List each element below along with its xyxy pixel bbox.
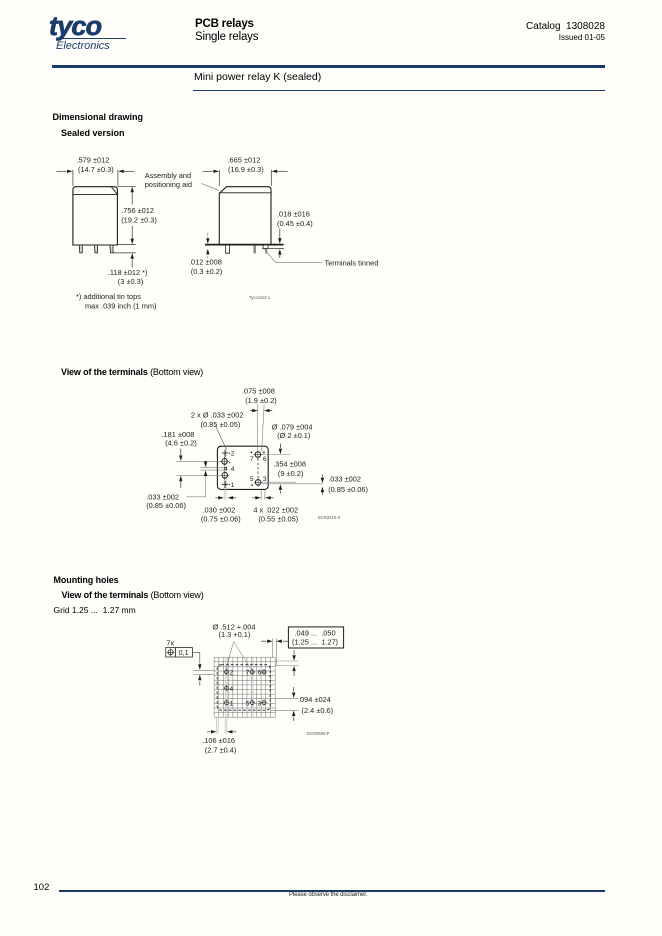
dim .049 arrow right tail: [283, 640, 289, 642]
svg-text:(1.25 ... 1.27): (1.25 ... 1.27): [292, 637, 338, 646]
dim .075 arrow left tail: [250, 410, 253, 412]
svg-text:(Ø 2 ±0.1): (Ø 2 ±0.1): [277, 431, 310, 440]
left dim lines pair: [194, 670, 215, 674]
pin 1 cross mark: [222, 481, 228, 488]
svg-text:4 x .022 ±002: 4 x .022 ±002: [253, 505, 298, 514]
right ext hline 3: [275, 697, 298, 699]
ext line pad B row left: [177, 474, 222, 476]
relay outline dashed: [217, 665, 270, 711]
dim .579 extension line right: [117, 170, 119, 186]
dim .354 arrowhead up: [279, 484, 282, 490]
hole 4: [223, 685, 229, 691]
leader to right relay chamfer: [202, 184, 219, 191]
svg-text:.118 ±012 *): .118 ±012 *): [108, 268, 148, 277]
left dim up arrowhead: [198, 675, 201, 681]
collar bottom extension line: [262, 247, 284, 249]
svg-text:positioning aid: positioning aid: [145, 180, 192, 189]
right ext hline 2: [275, 665, 298, 667]
svg-text:(0.85 ±0.06): (0.85 ±0.06): [328, 485, 368, 494]
svg-text:(0.3 ±0.2): (0.3 ±0.2): [191, 267, 223, 276]
frame leader: [192, 652, 199, 663]
dim .118 arrowhead up: [131, 253, 134, 259]
dim .049 arrow left tail: [261, 640, 266, 642]
feature control frame: [166, 648, 193, 657]
dim .049v lower tail: [293, 672, 295, 676]
svg-text:7: 7: [246, 670, 250, 677]
dim .181 arrowhead up: [179, 476, 182, 482]
svg-text:(0.55 ±0.05): (0.55 ±0.05): [258, 514, 298, 523]
dim .049v arrowhead up: [292, 666, 295, 672]
footer page number: [34, 882, 50, 893]
ext line pin4 bottom: [201, 469, 225, 471]
svg-text:.106 ±016: .106 ±016: [202, 736, 235, 745]
dim .033R arrowhead down: [321, 478, 324, 484]
svg-text:2 x Ø .033 ±002: 2 x Ø .033 ±002: [191, 410, 244, 419]
svg-text:7x: 7x: [166, 638, 174, 647]
dim .049 arrowhead right: [267, 640, 273, 643]
leader triangle from hole dia label: [226, 642, 252, 671]
dim .012 line above: [207, 233, 209, 238]
dim .106 arrowhead right: [227, 730, 233, 733]
dim .049 arrowhead left: [276, 640, 282, 643]
dim .075 arrowhead left: [264, 409, 270, 412]
dim .665 arrow left: [203, 170, 213, 172]
section heading: Dimensional drawing: [53, 112, 144, 122]
tyco Electronics text: [56, 40, 110, 52]
dim .579 arrow right: [124, 170, 134, 172]
dim .181 arrowhead down: [179, 455, 182, 461]
svg-text:1: 1: [231, 482, 235, 489]
label dot 2: [229, 453, 230, 454]
dim .012 line below: [207, 256, 209, 259]
svg-text:(0.85 ±0.05): (0.85 ±0.05): [201, 420, 241, 429]
header: PCB relays: [195, 18, 254, 30]
dim .181 upper line: [180, 449, 182, 456]
footer disclaimer: [289, 892, 367, 898]
svg-text:(3 ±0.3): (3 ±0.3): [118, 277, 143, 286]
tyco logo wordmark: [49, 11, 101, 42]
dim .118 line below: [131, 260, 133, 268]
svg-text:4: 4: [230, 686, 234, 693]
dim .018 line above: [279, 229, 281, 239]
svg-text:5: 5: [246, 700, 250, 707]
thick navy header bar: [52, 65, 605, 68]
ext line pad D row right long: [262, 483, 323, 485]
dim .756 arrowhead down: [131, 239, 134, 245]
svg-text:.033 ±002: .033 ±002: [328, 475, 361, 484]
leader terminals tinned diagonal: [264, 249, 322, 262]
tiny mark circle right of pad C: [263, 452, 265, 454]
dim .756 arrowhead up: [131, 187, 134, 193]
hole 1: [223, 700, 229, 706]
pin extension below grid left: [217, 717, 219, 733]
dim .756 bottom extension (body bottom): [117, 244, 135, 246]
dashed centerline between pads: [257, 459, 259, 479]
svg-text:Tyco1112-1: Tyco1112-1: [249, 295, 271, 300]
hole 7: [249, 669, 255, 675]
relay K body (side view) with chamfer top-left: [219, 187, 271, 244]
dim .033R lower line: [321, 493, 323, 496]
svg-text:4: 4: [231, 466, 235, 473]
svg-text:.075 ±008: .075 ±008: [242, 387, 275, 396]
cover seam line: [73, 194, 118, 196]
svg-text:(4.6 ±0.2): (4.6 ±0.2): [165, 439, 197, 448]
dim .033R arrowhead up: [321, 487, 324, 493]
dim .094 arrowhead down: [292, 693, 295, 699]
svg-text:(0.45 ±0.4): (0.45 ±0.4): [277, 219, 313, 228]
dim .018 line below: [279, 255, 281, 258]
pin left (front view): [79, 245, 82, 253]
svg-text:.018 ±016: .018 ±016: [277, 210, 310, 219]
ext line .075 left vertical: [257, 405, 259, 451]
dim .106 arrow tails: [207, 731, 236, 733]
svg-text:.756 ±012: .756 ±012: [121, 206, 154, 215]
hole 5: [249, 700, 255, 706]
svg-text:(1.3 +0.1): (1.3 +0.1): [219, 630, 251, 639]
svg-text:(0.85 ±0.06): (0.85 ±0.06): [146, 501, 186, 510]
dim .094 lower tail: [293, 717, 295, 721]
svg-text:ECR2210-X: ECR2210-X: [318, 515, 341, 520]
grid note: [54, 605, 136, 615]
svg-text:.049 ... .050: .049 ... .050: [295, 628, 336, 637]
dim .118 pin-bottom extension: [113, 252, 136, 254]
assembly aid chamfer diagonal: [111, 187, 117, 194]
hole 3: [261, 700, 267, 706]
dim .094 upper tail: [293, 687, 295, 692]
ext line pad A row left: [177, 460, 222, 462]
dim .579 arrowhead right: [118, 170, 124, 173]
mounting pads: [223, 669, 267, 706]
subheading: Sealed version: [61, 128, 125, 138]
terminal collar (tinned): [263, 245, 268, 248]
dim .665 arrow right: [278, 170, 288, 172]
pin under collar: [265, 248, 267, 253]
svg-text:(0.75 ±0.06): (0.75 ±0.06): [201, 514, 241, 523]
dim .665 extension right: [270, 170, 272, 186]
ext line pad D row right short: [262, 481, 296, 483]
header: Single relays: [195, 31, 258, 43]
svg-text:.665 ±012: .665 ±012: [228, 156, 261, 165]
pin hollow (side view left): [226, 245, 230, 253]
dim .049v arrowhead down: [292, 655, 295, 661]
relay footprint outline: [217, 446, 268, 489]
tiny mark sq below pad D: [251, 484, 253, 486]
svg-text:7: 7: [250, 456, 254, 463]
dim .756 top extension: [117, 185, 135, 187]
dim .018 arrowhead down: [278, 238, 281, 244]
boxed dim text: [288, 627, 343, 648]
dim .665 arrowhead right: [272, 170, 278, 173]
ext line pad C row right: [262, 454, 290, 456]
svg-text:(1.9 ±0.2): (1.9 ±0.2): [245, 396, 277, 405]
leader 2xd033: [215, 426, 226, 450]
hole 2: [223, 669, 229, 675]
label: Assembly and positioning aid: [145, 171, 192, 189]
pad A (left top): [220, 457, 229, 466]
svg-text:DCR0580-P: DCR0580-P: [307, 731, 330, 736]
svg-text:Ø .079 ±004: Ø .079 ±004: [272, 422, 313, 431]
cover seam line (side): [219, 192, 271, 194]
dim .094 arrowhead up: [292, 711, 295, 717]
svg-text:3: 3: [258, 700, 262, 707]
dim .030 arrowhead right: [228, 496, 234, 499]
hole 6: [261, 669, 267, 675]
ext lines below square right pair: [261, 490, 265, 500]
subtitle: [194, 71, 321, 83]
dim .033L arrowhead up: [204, 470, 207, 476]
dim .579 extension line left: [72, 170, 74, 186]
relay K body (front view): [73, 187, 118, 245]
right ext vline 2: [275, 639, 277, 666]
dim 4x.022 arrow tails: [252, 497, 273, 499]
footer navy rule: [59, 890, 605, 893]
dim 4x.022 arrowhead right: [265, 496, 271, 499]
svg-text:.030 ±002: .030 ±002: [203, 505, 236, 514]
svg-text:.579 ±012: .579 ±012: [77, 156, 110, 165]
dim .012 arrowhead down: [206, 238, 209, 244]
dim .106 arrowhead left: [211, 730, 217, 733]
dim .756 line lower: [131, 226, 133, 239]
pcb grid horizontal lines: [214, 657, 275, 717]
svg-text:(2.7 ±0.4): (2.7 ±0.4): [205, 746, 237, 755]
svg-text:(9 ±0.2): (9 ±0.2): [278, 469, 303, 478]
dim .033R upper line: [321, 475, 323, 478]
dim .354 lower line: [279, 491, 281, 494]
dim 4x.022 arrowhead left: [255, 496, 261, 499]
svg-text:(14.7 ±0.3): (14.7 ±0.3): [78, 165, 114, 174]
pin right (front view): [110, 245, 113, 253]
dim .075 arrowhead right: [252, 409, 258, 412]
section heading: Mounting holes: [54, 575, 119, 585]
frame leader arrowhead: [198, 664, 201, 670]
pin 2 cross mark: [222, 449, 228, 456]
dim .018 arrowhead up: [278, 249, 281, 255]
dim .049v upper tail: [293, 651, 295, 655]
pin solid (side view middle): [253, 245, 256, 253]
dim .033L upper tail: [205, 460, 207, 463]
svg-text:Terminals tinned: Terminals tinned: [325, 259, 379, 268]
grey pin column left: [224, 451, 226, 500]
dim .579 arrowhead left: [67, 170, 73, 173]
header right: Issued: [559, 33, 605, 42]
thin navy line under subtitle: [193, 90, 605, 91]
svg-text:5: 5: [250, 476, 254, 483]
svg-text:*) additional tin tops: *) additional tin tops: [76, 292, 141, 301]
ext line .075 right slanted: [262, 405, 264, 452]
label dot 1: [229, 484, 230, 485]
svg-text:(2.4 ±0.6): (2.4 ±0.6): [302, 706, 334, 715]
section heading: View of the terminals: [61, 367, 203, 377]
dim .354 arrowhead down: [279, 449, 282, 455]
svg-text:max .039 inch (1 mm): max .039 inch (1 mm): [85, 301, 156, 310]
left dim tail: [199, 682, 201, 686]
dim .756 line upper: [131, 192, 133, 205]
svg-text:.012 ±008: .012 ±008: [189, 257, 222, 266]
pin extension below grid right: [225, 717, 227, 733]
pin 4 square mark: [225, 467, 227, 469]
ext line pin4 top: [201, 466, 225, 468]
dim .030 arrow tails: [215, 497, 236, 499]
dim .665 extension left: [218, 170, 220, 186]
pcb seating line (thick): [205, 244, 284, 246]
svg-text:.094 ±024: .094 ±024: [298, 695, 331, 704]
dim .033L arrowhead down: [204, 462, 207, 468]
svg-text:1: 1: [230, 700, 234, 707]
pcb grid vertical lines: [214, 657, 275, 717]
pin middle (front view): [94, 245, 97, 253]
dim .665 arrowhead left: [213, 170, 219, 173]
pad D (right bottom): [254, 478, 263, 487]
subheading: View of the terminals 2: [62, 590, 204, 600]
tiny mark sq left of pad C: [251, 452, 253, 454]
svg-text:(19.2 ±0.3): (19.2 ±0.3): [121, 215, 157, 224]
tyco logo underline: [60, 38, 126, 39]
right ext hline 1: [275, 660, 298, 662]
svg-text:.354 ±008: .354 ±008: [273, 459, 306, 468]
svg-text:3: 3: [263, 476, 267, 483]
pad B (left bottom): [220, 471, 229, 480]
svg-text:6: 6: [263, 456, 267, 463]
dim .579 arrow left: [57, 170, 67, 172]
dim .181 lower line: [180, 482, 182, 488]
leader line for left .033: [187, 476, 206, 497]
dim .354 upper line: [279, 444, 281, 449]
dim .030 arrowhead left: [218, 496, 224, 499]
dim .012 arrowhead up: [206, 249, 209, 255]
pad C (right top): [254, 450, 263, 459]
svg-text:6: 6: [258, 670, 262, 677]
svg-text:(16.9 ±0.3): (16.9 ±0.3): [228, 165, 264, 174]
header right: Catalog: [526, 21, 605, 32]
pad A dot: [229, 462, 230, 463]
svg-text:2: 2: [230, 670, 234, 677]
grey pad column bands: [217, 657, 253, 733]
right ext vline 1: [272, 639, 274, 659]
dim .075 arrow right tail: [270, 410, 273, 412]
svg-text:2: 2: [231, 451, 235, 458]
svg-text:0,1: 0,1: [179, 648, 189, 657]
right ext hline 4: [270, 709, 298, 711]
